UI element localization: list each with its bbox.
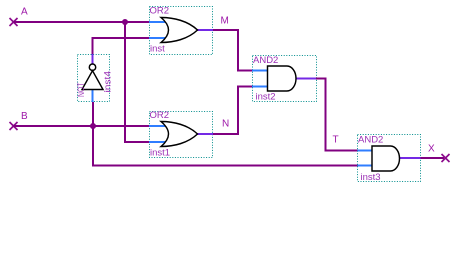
wire A branch vertical to inst1 [125, 22, 149, 142]
or-gate OR2 inst1 selection box [150, 112, 213, 158]
wire NOT output to OR2 inst second input [93, 38, 150, 54]
or-gate inst1 body [161, 122, 198, 147]
and-gate inst3 output pin stub [400, 157, 421, 159]
node junction on B [90, 123, 96, 129]
inverter inst4 triangle body [82, 71, 103, 90]
or-gate inst output pin stub [197, 29, 213, 31]
svg-text:OR2: OR2 [150, 110, 170, 121]
svg-text:inst1: inst1 [150, 148, 170, 159]
svg-text:AND2: AND2 [253, 55, 278, 66]
output pin X connector [442, 154, 450, 162]
wire net A horizontal [14, 21, 150, 23]
wire net B horizontal [14, 125, 150, 127]
or-gate OR2 inst selection box [150, 7, 213, 55]
and-gate AND2 inst3 selection box [358, 135, 421, 182]
wire net X output [421, 157, 445, 159]
svg-text:X: X [428, 143, 435, 154]
or-gate inst1 output pin stub [197, 133, 213, 135]
and-gate AND2 inst2 selection box [253, 56, 317, 102]
input pin B connector [10, 122, 18, 130]
node junction on A [122, 19, 128, 25]
svg-text:inst2: inst2 [256, 92, 276, 103]
svg-text:inst: inst [150, 44, 165, 55]
and-gate inst3 body [372, 146, 400, 171]
svg-text:M: M [221, 16, 229, 27]
svg-text:NOT: NOT [76, 82, 86, 97]
inverter inst4 bubble [89, 64, 95, 70]
wire B up to NOT input [92, 102, 94, 126]
inverter inst4 output pin stub [92, 54, 94, 64]
svg-text:A: A [21, 7, 28, 18]
or-gate inst1 input pin stubs [149, 125, 167, 127]
and-gate inst2 output pin stub [296, 78, 316, 80]
svg-text:T: T [333, 135, 339, 146]
svg-text:OR2: OR2 [150, 6, 170, 17]
and-gate inst2 body [268, 66, 297, 91]
and-gate inst3 input pin stubs [358, 150, 373, 152]
input pin A connector [10, 18, 18, 26]
inverter inst4 input pin stub [92, 90, 94, 103]
svg-text:inst3: inst3 [361, 172, 381, 183]
wire net M to AND2 inst2 upper input [213, 30, 252, 71]
wire B branch down to inst3 lower input [93, 126, 358, 166]
svg-text:B: B [21, 111, 28, 122]
and-gate inst2 input pin stubs [252, 70, 268, 72]
wire net N to AND2 inst2 lower input [213, 87, 252, 135]
inverter U inst4 selection box [78, 55, 110, 102]
svg-text:N: N [222, 119, 229, 130]
or-gate inst input pin stubs [149, 21, 167, 23]
svg-text:AND2: AND2 [358, 135, 383, 146]
or-gate inst body [161, 18, 198, 43]
wire net T to AND2 inst3 upper input [316, 79, 358, 151]
svg-text:inst4: inst4 [103, 71, 114, 93]
